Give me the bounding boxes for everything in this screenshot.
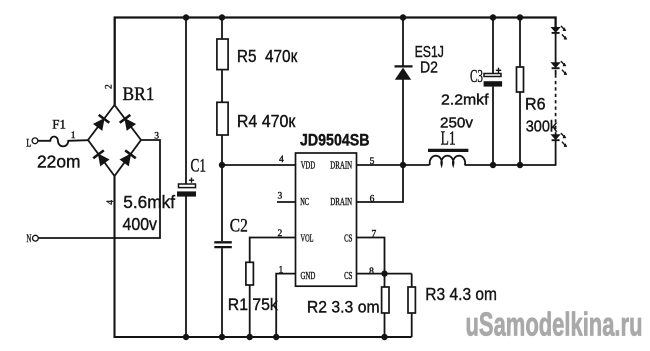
svg-text:L1: L1 (441, 129, 456, 150)
svg-text:L: L (26, 135, 31, 149)
svg-text:8: 8 (369, 267, 374, 277)
svg-text:1: 1 (71, 131, 76, 141)
svg-text:400v: 400v (123, 214, 158, 234)
svg-text:7: 7 (372, 230, 377, 240)
svg-text:C3: C3 (470, 66, 483, 86)
svg-text:D2: D2 (420, 60, 438, 77)
svg-text:uSamodelkina.ru: uSamodelkina.ru (466, 306, 643, 343)
svg-text:R1 75k: R1 75k (228, 295, 278, 314)
svg-text:BR1: BR1 (123, 84, 155, 105)
svg-text:1: 1 (279, 265, 284, 275)
svg-text:DRAIN: DRAIN (330, 196, 352, 208)
svg-text:N: N (26, 231, 31, 245)
svg-text:JD9504SB: JD9504SB (300, 132, 370, 150)
svg-text:CS: CS (344, 270, 352, 282)
svg-text:GND: GND (301, 270, 316, 282)
svg-text:4: 4 (279, 155, 284, 165)
svg-text:VOL: VOL (301, 232, 314, 244)
svg-text:CS: CS (344, 232, 352, 244)
svg-text:300k: 300k (526, 118, 558, 135)
svg-text:C1: C1 (191, 156, 207, 177)
svg-text:5.6mkf: 5.6mkf (123, 192, 175, 212)
svg-text:ES1J: ES1J (415, 44, 444, 61)
svg-text:NC: NC (300, 196, 309, 208)
svg-text:C2: C2 (230, 216, 248, 237)
svg-text:6: 6 (370, 195, 375, 205)
svg-text:2: 2 (105, 84, 115, 89)
svg-text:R2 3.3 om: R2 3.3 om (307, 298, 380, 317)
svg-text:R4 470к: R4 470к (237, 111, 296, 131)
svg-text:2.2mkf: 2.2mkf (441, 93, 490, 109)
svg-text:R6: R6 (525, 95, 546, 114)
svg-text:VDD: VDD (301, 160, 316, 172)
svg-text:DRAIN: DRAIN (330, 160, 352, 172)
svg-text:3: 3 (154, 131, 159, 141)
svg-text:F1: F1 (52, 117, 66, 132)
svg-text:R3 4.3 om: R3 4.3 om (425, 284, 497, 304)
svg-text:3: 3 (278, 192, 283, 202)
svg-text:22om: 22om (37, 151, 81, 171)
svg-text:2: 2 (278, 229, 283, 239)
svg-text:R5 470к: R5 470к (237, 46, 298, 66)
svg-text:5: 5 (370, 157, 375, 167)
svg-text:4: 4 (106, 200, 116, 205)
